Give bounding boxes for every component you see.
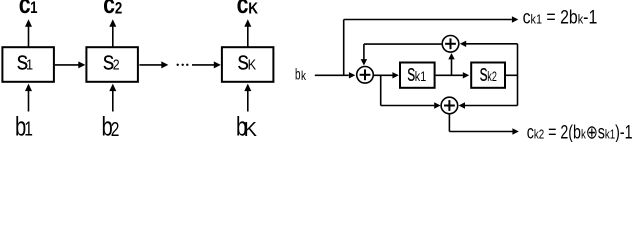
svg-text:c: c bbox=[103, 0, 115, 19]
svg-text:k2: k2 bbox=[487, 71, 497, 85]
svg-text:2: 2 bbox=[115, 0, 122, 18]
svg-text:b: b bbox=[295, 65, 301, 83]
svg-text:K: K bbox=[244, 119, 258, 141]
svg-text:k: k bbox=[301, 70, 306, 83]
svg-text:K: K bbox=[248, 0, 258, 17]
svg-text:ck2 = 2(bk⊕sk1)-1: ck2 = 2(bk⊕sk1)-1 bbox=[527, 122, 633, 142]
svg-text:K: K bbox=[248, 56, 257, 73]
svg-text:1: 1 bbox=[26, 56, 33, 73]
svg-text:2: 2 bbox=[113, 57, 120, 73]
svg-text:c: c bbox=[237, 0, 249, 19]
svg-text:2: 2 bbox=[111, 118, 120, 140]
svg-text:k1: k1 bbox=[415, 69, 427, 84]
svg-text:c: c bbox=[19, 0, 31, 19]
svg-text:1: 1 bbox=[30, 0, 38, 17]
svg-text:1: 1 bbox=[24, 118, 33, 140]
svg-text:s: s bbox=[480, 61, 488, 87]
svg-text:ck1 = 2bk-1: ck1 = 2bk-1 bbox=[523, 6, 598, 28]
